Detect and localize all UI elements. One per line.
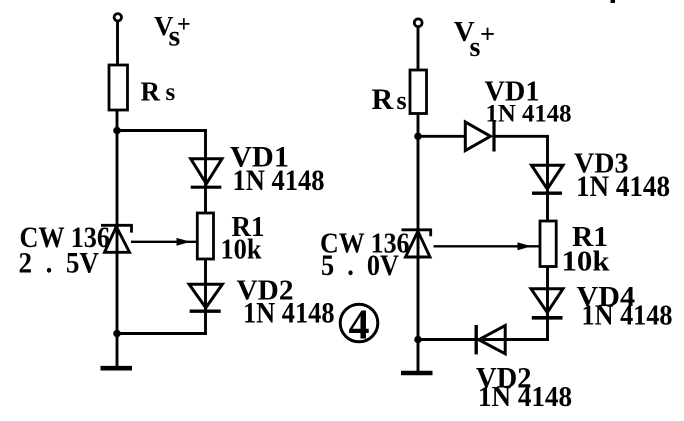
shunt regulator CW136 (left) [101,225,132,252]
junction node (left, bottom) [113,330,121,338]
svg-text:s: s [166,79,176,106]
svg-text:+: + [480,18,495,48]
circled figure number 4 [340,303,378,349]
svg-text:5 . 0V: 5 . 0V [321,249,399,282]
wire: left terminal to Rs [116,21,119,66]
junction node (right, bottom) [414,336,422,344]
artifact mark (top right) [611,0,616,3]
junction node (left, top) [113,127,121,135]
svg-text:+: + [177,12,191,38]
diode VD1 (right, series) [465,120,494,152]
wire: VD1 to right branch top [494,136,548,221]
wire: R1 bottom to VD2 and junction (right) [418,267,548,340]
diode VD3 (right) [532,165,564,193]
svg-text:R: R [141,77,161,107]
shunt regulator CW136 (right) [402,230,431,257]
svg-text:1N 4148: 1N 4148 [478,381,572,413]
potentiometer R1 (left) [197,213,213,259]
resistor Rs (left) [109,65,128,110]
label Vs+ (right) [454,16,495,63]
svg-text:s: s [397,86,407,115]
junction node (right, top) [414,133,422,141]
wiper arrow: CW136 to R1 (right) [434,242,541,250]
svg-text:4: 4 [349,303,370,349]
label Rs (right) [372,83,407,116]
svg-text:1N 4148: 1N 4148 [243,297,335,330]
diode VD4 (right) [531,289,563,318]
svg-text:1N 4148: 1N 4148 [486,99,572,128]
ground (left) [101,366,133,371]
terminal Vs+ (right) [414,19,422,27]
diode VD2 (right, reverse) [476,325,505,354]
label Vs+ (left) [154,11,191,53]
svg-text:s: s [470,32,481,63]
svg-text:1N 4148: 1N 4148 [576,170,670,203]
wire: right main rail [417,114,420,372]
svg-text:10k: 10k [221,234,263,266]
svg-text:2 . 5V: 2 . 5V [19,247,100,280]
potentiometer R1 (right) [540,221,556,267]
diode VD2 (left) [189,284,222,311]
resistor Rs (right) [410,70,427,114]
svg-text:10k: 10k [562,245,611,277]
label Rs (left) [141,77,176,107]
svg-text:R: R [372,83,394,116]
svg-text:1N 4148: 1N 4148 [233,164,325,197]
wire: left junction to branch, down to bottom rail [117,131,206,334]
diode VD1 (left) [191,159,222,187]
ground (right) [401,371,433,375]
wire: left main rail [116,110,119,366]
wire: right terminal to Rs [417,27,420,71]
wire: right junction to VD1 [418,135,466,138]
wiper arrow: CW136 to R1 (left) [131,238,197,246]
svg-text:1N 4148: 1N 4148 [582,301,673,332]
terminal Vs+ (left) [114,14,121,21]
